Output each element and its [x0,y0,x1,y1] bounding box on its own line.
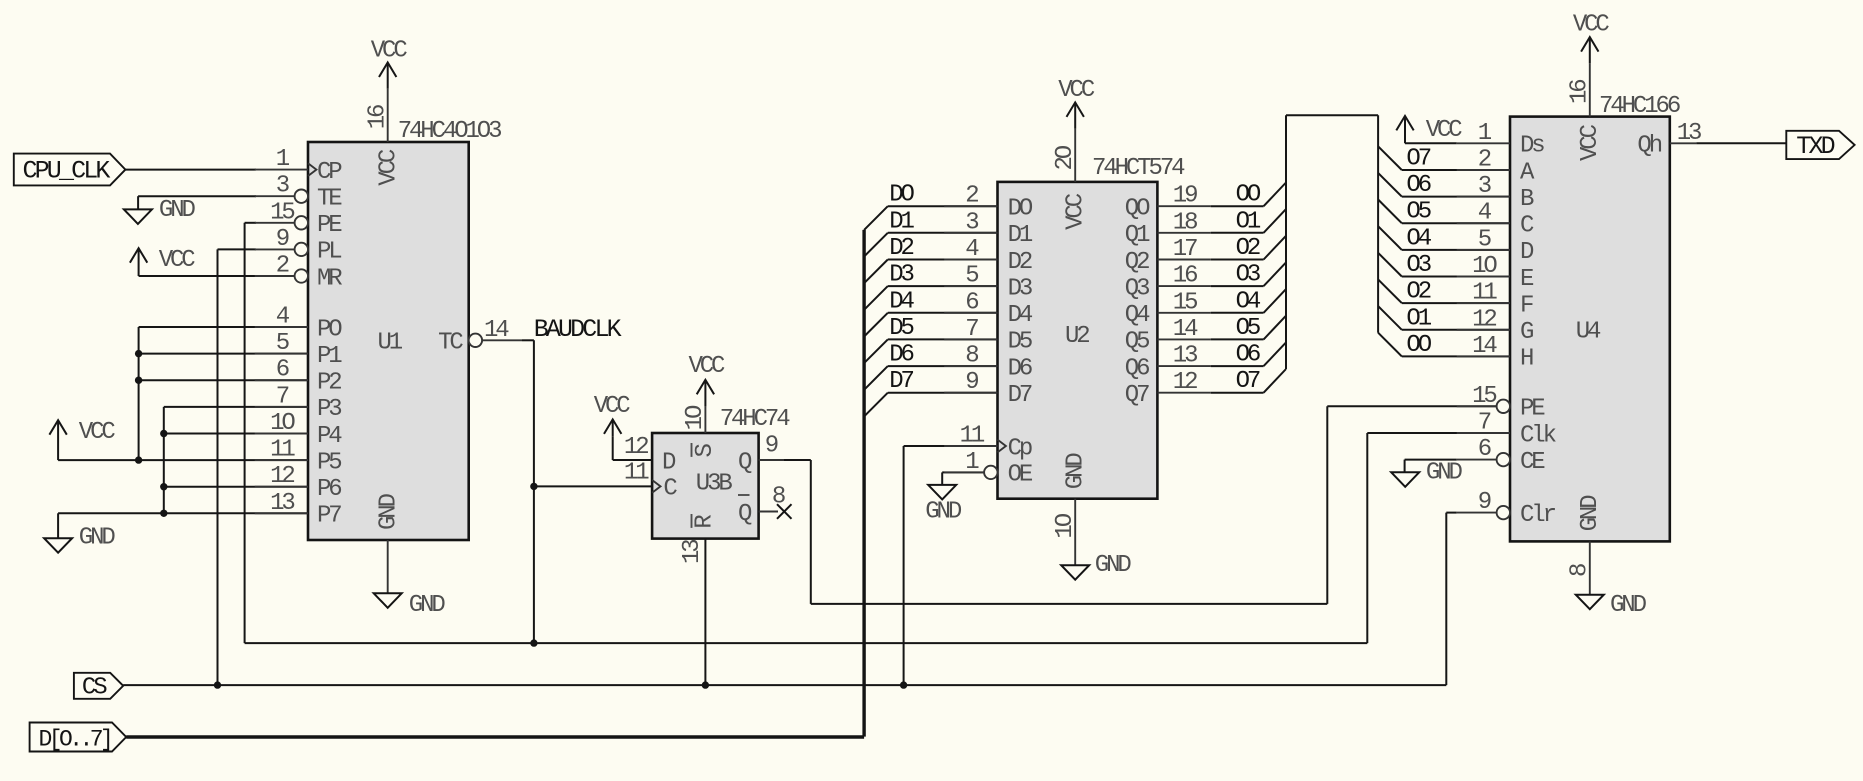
U4 pin 14 H [1457,333,1533,373]
svg-text:17: 17 [1173,236,1197,263]
svg-text:D6: D6 [1008,355,1032,382]
svg-text:GND: GND [1063,453,1090,490]
svg-text:19: 19 [1173,183,1197,210]
junction BAUDCLK at bottom run [530,639,537,646]
svg-text:11: 11 [270,437,295,464]
svg-text:GND: GND [376,493,403,530]
bus entry D6 [864,366,888,390]
wire D7 to U2 [888,392,998,394]
wire CS up to U4 Clr [1446,513,1456,686]
junction P5 [135,456,142,463]
wire GND bus to P3 P4 P6 [164,407,308,513]
svg-text:G: G [1520,319,1533,346]
svg-text:3: 3 [276,173,289,200]
wire Qh to TXD [1696,142,1786,144]
svg-text:13: 13 [679,540,706,564]
junction Cp at CS [900,681,907,688]
svg-text:D2: D2 [889,235,913,262]
ground symbol below U2 [1061,552,1131,580]
svg-text:O4: O4 [1406,225,1431,252]
svg-text:Clk: Clk [1520,422,1557,449]
U4 pin 6 CE-bar [1457,436,1546,476]
svg-text:U3B: U3B [696,471,733,498]
svg-text:GND: GND [1095,552,1132,579]
U2 pin 20 VCC stub [1052,129,1090,230]
svg-text:VCC: VCC [1573,12,1610,39]
svg-text:VCC: VCC [376,149,403,186]
U1 pin 4 P0 [255,304,343,344]
svg-text:TC: TC [438,330,463,357]
svg-text:Qh: Qh [1637,133,1661,160]
svg-text:9: 9 [276,226,289,253]
U1 pin 13 P7 [255,490,342,530]
IC U3B 74HC74 body [652,433,759,539]
U1 pin 6 P2 [255,357,342,397]
bus D[0..7] vertical riser [862,230,865,737]
svg-text:13: 13 [270,490,294,517]
svg-text:P7: P7 [317,503,341,530]
svg-text:Q6: Q6 [1125,355,1149,382]
U2 pin 11 Cp clock [944,423,1032,463]
wire CPU_CLK to U1 CP [125,169,256,171]
U2 pin 6 D4 [944,289,1033,329]
svg-text:7: 7 [965,316,978,343]
svg-text:D[O..7]: D[O..7] [39,726,111,752]
wire CS to U2 Cp [904,446,998,685]
svg-text:D2: D2 [1008,249,1032,276]
svg-text:VCC: VCC [1577,124,1604,161]
U4 pin 8 GND stub [1567,495,1605,595]
VCC power symbol at U3B D input [594,393,652,460]
junction P1 [135,350,142,357]
U2 pin 14 Q5 [1125,316,1211,356]
svg-text:Q7: Q7 [1125,382,1149,409]
svg-text:O2: O2 [1236,235,1260,262]
svg-text:1O: 1O [682,405,709,430]
wire U3B Q to U4 PE [784,406,1497,604]
U4 pin 12 G [1457,306,1533,346]
svg-text:6: 6 [1478,436,1491,463]
ground symbol below U1 [374,592,446,619]
svg-text:P4: P4 [317,423,342,450]
U3B pin 11 C clock [624,460,678,503]
wire O2 into U4 F [1378,279,1510,303]
U2 pin 13 Q6 [1125,343,1211,383]
svg-text:74HC74: 74HC74 [720,406,791,433]
svg-text:8: 8 [965,343,978,370]
svg-text:3: 3 [1478,173,1491,200]
wire BAUDCLK to U3B C [534,485,652,487]
wire staircase U2 outputs to vertical riser [1211,115,1378,393]
wire BAUDCLK bottom run to U4 Clk [245,642,1368,644]
svg-text:Q5: Q5 [1125,329,1149,356]
svg-text:VCC: VCC [688,353,725,380]
svg-text:18: 18 [1173,209,1197,236]
wire O0 into U4 H [1378,333,1510,357]
svg-text:15: 15 [270,199,294,226]
svg-text:Q1: Q1 [1125,222,1150,249]
svg-text:GND: GND [1610,592,1647,619]
svg-text:1O: 1O [1472,253,1497,280]
wire U1 PE down to BAUDCLK net [245,222,256,224]
svg-text:12: 12 [270,463,294,490]
svg-text:11: 11 [1472,280,1497,307]
svg-text:O5: O5 [1236,315,1260,342]
svg-text:PO: PO [317,316,342,343]
global output label TXD [1786,131,1854,161]
svg-text:D5: D5 [1008,329,1032,356]
ground symbol below U4 [1576,592,1647,619]
wire D0 to U2 [888,205,998,207]
U3B pin 13 R-bar stub to CS [679,514,719,685]
svg-text:O2: O2 [1406,279,1430,306]
svg-text:QO: QO [1125,196,1150,223]
svg-text:D7: D7 [889,368,913,395]
junction U3B R-bar at CS [702,681,709,688]
svg-text:D5: D5 [889,315,913,342]
U2 pin 15 Q4 [1125,289,1211,329]
wire D6 to U2 [888,365,998,367]
bus entry D3 [864,286,888,310]
U4 pin 4 C [1457,200,1534,240]
svg-text:2: 2 [965,183,978,210]
svg-text:Cp: Cp [1008,435,1032,462]
svg-text:Clr: Clr [1520,502,1556,529]
svg-text:PE: PE [317,212,342,239]
U1 pin 7 P3 [255,383,342,423]
svg-text:8: 8 [1567,564,1594,577]
svg-text:VCC: VCC [594,393,631,420]
svg-text:CS: CS [82,674,107,701]
U2 pin 2 D0 [944,183,1033,223]
svg-text:74HC4O1O3: 74HC4O1O3 [398,118,501,145]
VCC power symbol above U1 [371,38,408,89]
junction P6 [160,483,167,490]
VCC power symbol left of U1 P inputs [49,419,308,460]
svg-text:74HC166: 74HC166 [1599,93,1680,120]
svg-text:2: 2 [1478,147,1491,174]
wire TC to BAUDCLK vertical [522,339,534,341]
junction P7 [160,510,167,517]
U4 pin 1 Ds [1457,120,1545,160]
svg-text:DO: DO [1008,196,1033,223]
U2 pin 4 D2 [944,236,1032,276]
svg-text:13: 13 [1173,343,1197,370]
svg-text:U2: U2 [1065,323,1089,350]
svg-text:H: H [1520,346,1533,373]
bus entry D2 [864,260,888,284]
svg-text:D6: D6 [889,342,913,369]
U4 pin 15 PE-bar [1457,383,1546,423]
VCC power symbol above U2 [1058,77,1095,129]
svg-text:P1: P1 [317,343,342,370]
U1 pin 12 P6 [255,463,342,503]
svg-text:5: 5 [965,263,978,290]
U1 pin 1 CP [255,146,343,186]
ground symbol at U4 CE [1391,460,1462,487]
bus entry D4 [864,313,888,337]
IC U1 74HC40103 body [308,142,469,540]
bus entry D1 [864,233,888,257]
svg-text:GND: GND [79,525,116,552]
U4 pin 16 VCC stub [1567,63,1605,161]
svg-text:14: 14 [1173,316,1198,343]
svg-text:VCC: VCC [1058,77,1095,104]
svg-text:BAUDCLK: BAUDCLK [534,315,622,344]
IC U2 74HCT574 body [998,182,1158,499]
svg-text:VCC: VCC [371,38,408,65]
svg-text:16: 16 [1173,263,1197,290]
U1 pin 2 MR [255,253,343,293]
svg-text:5: 5 [1478,226,1491,253]
U1 pin 10 P4 [255,410,343,450]
svg-text:14: 14 [484,317,509,344]
svg-text:F: F [1520,292,1533,319]
svg-text:VCC: VCC [1426,117,1463,144]
wire O6 into U4 B [1378,173,1510,197]
svg-text:O7: O7 [1406,146,1430,173]
junction P2 [135,377,142,384]
svg-text:5: 5 [276,330,289,357]
U4 pin 5 D [1457,226,1534,266]
svg-text:O6: O6 [1236,342,1260,369]
U4 pin 11 F [1457,280,1533,320]
wire VCC bus to P0 P1 P2 [139,327,308,460]
svg-text:O6: O6 [1406,172,1430,199]
wire O3 into U4 E [1378,253,1510,277]
svg-text:CE: CE [1520,449,1545,476]
svg-text:7: 7 [1478,410,1491,437]
svg-text:U1: U1 [378,329,403,356]
bus entry D7 [864,393,888,417]
wire O4 into U4 D [1378,226,1510,250]
svg-text:VCC: VCC [159,247,196,274]
svg-text:GND: GND [159,197,196,224]
bus entry D0 [864,206,888,230]
U1 GND pin stub [376,493,403,593]
svg-text:P5: P5 [317,449,341,476]
svg-text:OO: OO [1406,332,1431,359]
svg-text:O3: O3 [1406,252,1430,279]
svg-text:DO: DO [889,182,914,209]
svg-text:MR: MR [317,265,342,292]
wire CS horizontal run [123,684,1446,686]
svg-text:VCC: VCC [1063,193,1090,230]
svg-text:D7: D7 [1008,382,1032,409]
svg-text:O7: O7 [1236,368,1260,395]
svg-text:GND: GND [1577,495,1604,532]
U3B pin 10 S-bar stub with VCC [682,353,725,458]
svg-text:OO: OO [1236,182,1261,209]
svg-text:16: 16 [365,105,392,129]
U1 pin 11 P5 [255,437,342,477]
VCC power symbol at U1 MR [130,247,256,276]
svg-text:TXD: TXD [1796,132,1834,161]
svg-text:D4: D4 [1008,302,1033,329]
svg-text:2O: 2O [1052,145,1079,170]
svg-text:VCC: VCC [79,419,116,446]
U4 pin 3 B [1457,173,1534,213]
U4 pin 10 E [1457,253,1534,293]
U2 pin 1 OE-bar [944,449,1033,489]
global input label D[0..7] [30,723,127,753]
svg-text:CP: CP [317,159,342,186]
U4 pin 13 Qh output [1637,120,1701,160]
svg-text:O5: O5 [1406,199,1430,226]
svg-text:14: 14 [1472,333,1497,360]
svg-text:PE: PE [1520,396,1545,423]
svg-text:2: 2 [276,253,289,280]
svg-text:6: 6 [965,289,978,316]
svg-text:D1: D1 [889,208,914,235]
U4 pin 2 A [1457,147,1535,187]
svg-text:D3: D3 [889,262,913,289]
U2 pin 16 Q3 [1125,263,1211,303]
svg-text:OE: OE [1008,462,1033,489]
svg-text:6: 6 [276,357,289,384]
svg-text:P2: P2 [317,370,341,397]
svg-text:9: 9 [965,369,978,396]
svg-text:1O: 1O [270,410,295,437]
global input label CS [74,673,123,702]
ground symbol left of U1 P inputs [44,513,308,552]
U2 pin 17 Q2 [1125,236,1211,276]
svg-text:TE: TE [317,186,342,213]
svg-text:O3: O3 [1236,262,1260,289]
svg-text:D1: D1 [1008,222,1033,249]
VCC power symbol above U4 [1573,12,1610,64]
U4 pin 9 Clr-bar [1457,489,1556,529]
wire D5 to U2 [888,338,998,340]
svg-text:11: 11 [960,423,985,450]
ground symbol at U2 OE [925,472,984,525]
svg-text:P3: P3 [317,396,341,423]
wire D1 to U2 [888,232,998,234]
wire O1 into U4 G [1378,306,1510,330]
svg-text:9: 9 [1478,489,1491,516]
wire O7 into U4 A [1378,146,1510,170]
U1 pin 9 PL [255,226,342,266]
svg-text:U4: U4 [1576,318,1601,345]
svg-text:11: 11 [624,460,649,487]
U2 pin 19 Q0 [1125,183,1211,223]
svg-text:O4: O4 [1236,288,1261,315]
svg-text:3: 3 [965,209,978,236]
svg-text:15: 15 [1472,383,1496,410]
global input label CPU_CLK [14,154,126,186]
svg-text:Q4: Q4 [1125,302,1150,329]
wire O5 into U4 C [1378,200,1510,224]
wire D4 to U2 [888,312,998,314]
U1 pin 16 VCC stub [365,89,403,186]
svg-text:O1: O1 [1406,305,1431,332]
svg-text:P6: P6 [317,476,341,503]
svg-text:CPU_CLK: CPU_CLK [23,156,111,185]
svg-text:7: 7 [276,383,289,410]
svg-text:O1: O1 [1236,208,1261,235]
svg-text:GND: GND [1426,460,1463,487]
svg-text:12: 12 [1472,306,1496,333]
U2 pin 12 Q7 [1125,369,1211,409]
junction CS at U1 PL branch [214,681,221,688]
U2 pin 18 Q1 [1125,209,1211,249]
svg-text:Ds: Ds [1520,133,1544,160]
ground symbol at U1 TE [124,196,256,224]
U2 pin 3 D1 [944,209,1033,249]
U4 pin 7 Clk [1457,410,1557,450]
svg-text:12: 12 [1173,369,1197,396]
wire U1 PL down to CS net [218,248,257,250]
wire D2 to U2 [888,259,998,261]
svg-text:9: 9 [765,433,778,460]
U2 pin 10 GND stub [1052,453,1090,566]
U3B pin 8 Q-bar with no-connect X [738,484,792,528]
svg-text:15: 15 [1173,289,1197,316]
U2 pin 7 D5 [944,316,1032,356]
U1 pin 5 P1 [255,330,343,370]
bus D[0..7] horizontal run [126,735,864,738]
svg-text:PL: PL [317,239,341,266]
svg-text:74HCT574: 74HCT574 [1092,155,1185,182]
svg-text:Q2: Q2 [1125,249,1149,276]
U2 pin 9 D7 [944,369,1032,409]
svg-text:12: 12 [624,434,648,461]
U1 pin 15 PE [255,199,343,239]
svg-text:1O: 1O [1052,513,1079,538]
junction BAUDCLK at C [530,483,537,490]
svg-text:GND: GND [409,592,446,619]
U2 pin 5 D3 [944,263,1032,303]
U3B pin 12 D [624,434,676,476]
svg-text:D4: D4 [889,288,914,315]
svg-text:16: 16 [1567,80,1594,104]
U3B pin 9 Q output [738,433,784,477]
svg-text:GND: GND [925,499,962,526]
VCC power symbol at U4 Ds [1396,116,1462,144]
bus entry D5 [864,339,888,363]
svg-text:Q3: Q3 [1125,275,1149,302]
junction P4 [160,430,167,437]
svg-text:D3: D3 [1008,275,1032,302]
U2 pin 8 D6 [944,343,1032,383]
IC U4 74HC166 body [1510,117,1670,542]
U1 pin 14 TC output [438,317,522,357]
U1 pin 3 TE [255,173,343,213]
wire D3 to U2 [888,285,998,287]
